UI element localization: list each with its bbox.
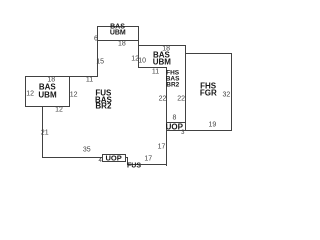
dimension 10 (right of divider)	[138, 58, 146, 65]
dimension 35 (bottom edge)	[83, 147, 91, 154]
wall: bottom step vertical	[127, 157, 128, 164]
label BR2 (center)	[95, 102, 111, 111]
dimension 22 (right of column)	[177, 96, 185, 103]
wall: top box bottom edge	[97, 40, 140, 41]
wall: right UOP top edge	[166, 122, 186, 123]
dimension 32 (garage right edge)	[222, 92, 230, 99]
wall: second box BAS/UBM top edge	[138, 45, 186, 46]
label FHS (garage)	[200, 82, 216, 91]
label UOP (bottom porch)	[105, 153, 121, 162]
wall: middle column left edge	[166, 67, 167, 166]
label FGR (garage)	[200, 88, 217, 97]
wall: top box left edge	[97, 26, 98, 77]
label UBM (left box)	[38, 90, 56, 99]
wall: bottom edge (35)	[42, 157, 128, 158]
dimension 12 (left box right)	[70, 92, 78, 99]
wall: left box right edge	[69, 76, 70, 107]
wall: left box left edge	[25, 76, 26, 107]
dimension 8 (column above UOP)	[172, 114, 176, 121]
dimension 21 (lower-left edge)	[41, 129, 49, 136]
label UBM (top box)	[110, 30, 126, 37]
wall: top box BAS/UBM top edge	[97, 26, 140, 27]
dimension 6 (top box left edge)	[94, 35, 98, 42]
wall: top box right edge down to second box bottom	[138, 26, 139, 68]
dimension 22 (left of column)	[159, 96, 167, 103]
wall: bottom-right lower edge (17)	[127, 164, 168, 165]
wall: garage right edge	[231, 53, 232, 131]
label BAS (center)	[95, 95, 112, 104]
wall: lower-left vertical edge	[42, 106, 43, 158]
porch box: bottom UOP	[102, 154, 127, 162]
dimension 12 (left box left)	[26, 91, 34, 98]
dimension 18 (top box bottom)	[118, 40, 126, 47]
label BAS (right column)	[166, 76, 180, 83]
wall: garage and right UOP bottom edge	[166, 130, 232, 131]
wall: second box bottom edge	[138, 67, 167, 68]
dimension 18 (left box top)	[47, 77, 55, 84]
dimension 12 (left box bottom)	[55, 107, 63, 114]
label BAS (top box)	[110, 23, 125, 30]
label BR2 (right column)	[166, 82, 179, 89]
dimension 15 (left edge)	[96, 59, 104, 66]
dimension 19 (garage bottom)	[208, 121, 216, 128]
dimension 12 (left of divider)	[131, 55, 139, 62]
dimension 18 (second box top)	[162, 46, 170, 53]
label UOP (right porch)	[166, 122, 183, 131]
wall: left box bottom edge	[25, 106, 70, 107]
dimension 3 (below right porch)	[181, 130, 184, 136]
label BAS (left box)	[39, 83, 56, 92]
label UBM (second box)	[153, 57, 171, 66]
dimension 4 (bottom porch left)	[99, 158, 102, 164]
label FUS (bottom)	[127, 162, 141, 169]
label FUS (center)	[95, 88, 111, 97]
wall: left box top edge	[25, 76, 97, 77]
dimension 11 (top of left box right segment)	[86, 76, 93, 83]
dimension 11 (second box bottom)	[152, 68, 159, 75]
label FHS (right column)	[166, 69, 179, 76]
label BAS (second box)	[153, 51, 170, 60]
wall: second box right / garage left edge	[185, 45, 186, 130]
dimension 17 (bottom-right vertical)	[158, 144, 166, 151]
dimension 17 (bottom-right horizontal)	[144, 156, 152, 163]
wall: garage FHS/FGR top edge	[185, 53, 232, 54]
